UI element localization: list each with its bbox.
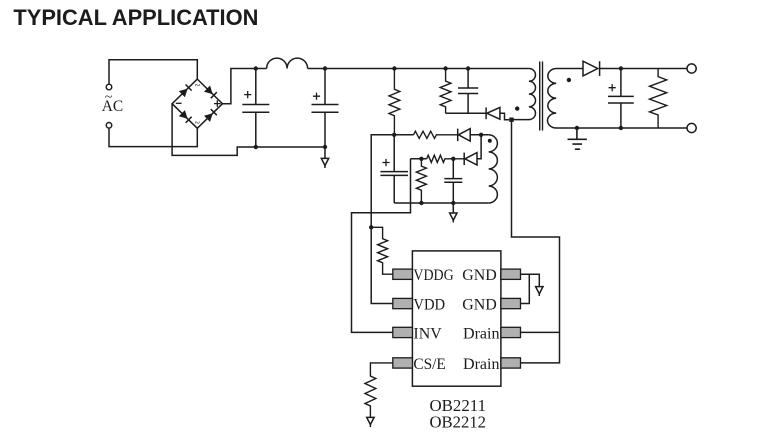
wire GND2 up to GND1 [521,274,529,303]
pin VDD stub [393,298,413,308]
resistor R5 divider [416,159,426,203]
ground arrow IC [538,294,540,296]
node secondary ground [575,126,579,130]
primary polarity dot [515,106,519,110]
wire bridge minus output to negative rail [172,104,325,156]
node row2 left [419,157,423,161]
label C out plus [609,84,616,91]
resistor R6 VDDG [371,227,393,274]
wire INV feedback line [352,159,411,333]
wire D3 to aux winding [470,134,489,136]
bridge diode top-right [204,86,213,95]
pin Drain1 stub [501,327,521,337]
node rail C5 [451,201,455,205]
ground arrow below C2 [324,147,326,168]
node VDDG tap [369,225,373,229]
wire secondary top rail [600,68,687,70]
earth ground secondary [568,128,587,149]
secondary polarity dot [567,78,571,82]
svg-text:AC: AC [102,98,123,115]
wire node A (VDD line) [371,135,394,304]
diode D4 aux row2 [465,153,477,165]
wire AC bottom to bridge bottom vertex [109,128,197,147]
svg-text:~: ~ [195,81,201,92]
svg-text:Drain: Drain [463,356,500,373]
wire aux row2 [411,158,427,160]
node rail R5 [419,201,423,205]
output terminal bottom [687,123,696,132]
bridge label plus [214,100,221,107]
bridge rectifier BR1 diamond [172,79,222,128]
node C out top [619,66,623,70]
ground arrow CS/E [369,425,371,427]
node R2 top [443,66,447,70]
AC input terminal bottom [106,123,112,129]
capacitor C1 [242,69,269,148]
capacitor C5 filter [444,159,462,203]
label C2 plus [313,93,320,100]
ground arrow aux [452,203,454,223]
bridge label minus [176,102,182,104]
transformer T1 secondary winding [547,69,687,129]
diode D2 output rectifier [583,61,598,76]
svg-text:GND: GND [462,267,497,284]
transformer T1 primary winding [512,69,536,120]
pin INV stub [393,327,413,337]
bridge diode bottom-left [179,110,188,119]
resistor R1 startup [389,69,400,135]
resistor R3 aux row1 [414,131,458,138]
pin CS/E stub [393,358,413,368]
pin GND2 stub [501,298,521,308]
wire bridge plus output riser to positive rail [223,69,267,104]
wire Drain1 [521,331,560,333]
wire aux ground rail [394,202,489,204]
op IC U1 OB2211 body [412,251,501,386]
node A junction [392,133,396,137]
label C1 plus [244,91,251,98]
resistor R load [650,69,667,129]
resistor R7 CS/E sense [365,363,393,418]
svg-text:VDD: VDD [413,297,445,314]
node R1 top [392,66,396,70]
wire positive rail [308,68,529,70]
svg-text:~: ~ [194,118,200,129]
capacitor C2 [312,69,339,148]
inductor L1 [267,58,308,68]
svg-text:VDDG: VDDG [413,267,454,284]
svg-text:GND: GND [462,297,497,314]
wire aux row1 [394,134,413,136]
node aux top junction [479,133,483,137]
svg-text:TYPICAL APPLICATION: TYPICAL APPLICATION [13,5,258,30]
aux polarity dot [488,139,492,143]
node C clamp top [466,66,470,70]
wire GND1 to ground [521,274,539,286]
wire clamp bottom [446,112,487,114]
label C3 plus [382,159,389,166]
capacitor C clamp [458,69,478,114]
AC input terminal top [106,84,112,90]
pin Drain2 stub [501,358,521,368]
transformer core [540,62,543,131]
diode D1 clamp [487,107,500,119]
svg-text:INV: INV [413,326,442,343]
svg-text:OB2212: OB2212 [430,412,487,431]
node C out bottom [619,126,623,130]
bridge diode bottom-right [204,113,213,122]
svg-text:CS/E: CS/E [413,356,445,373]
svg-text:Drain: Drain [463,326,500,343]
capacitor C out [608,69,634,129]
output terminal top [687,64,696,73]
wire AC top to bridge top vertex [109,60,197,84]
node primary bottom junction [509,118,513,122]
bridge diode top-left [179,89,188,98]
transformer T1 aux winding [489,135,498,203]
node C2 top [323,66,327,70]
resistor R2 clamp [440,69,451,114]
node C1 top [254,66,258,70]
node C1 bottom [254,145,258,149]
pin VDDG stub [393,269,413,279]
node C2 bottom [323,145,327,149]
resistor R4 aux row2 [427,155,465,162]
wire Drain2 riser to primary [512,120,560,363]
diode D3 aux row1 [458,129,470,142]
node row2 right [451,157,455,161]
capacitor C3 VDD [380,135,408,203]
wire aux top junction down to row2 [477,135,481,159]
pin GND1 stub [501,269,521,279]
wire clamp diode to primary bottom [500,113,509,119]
